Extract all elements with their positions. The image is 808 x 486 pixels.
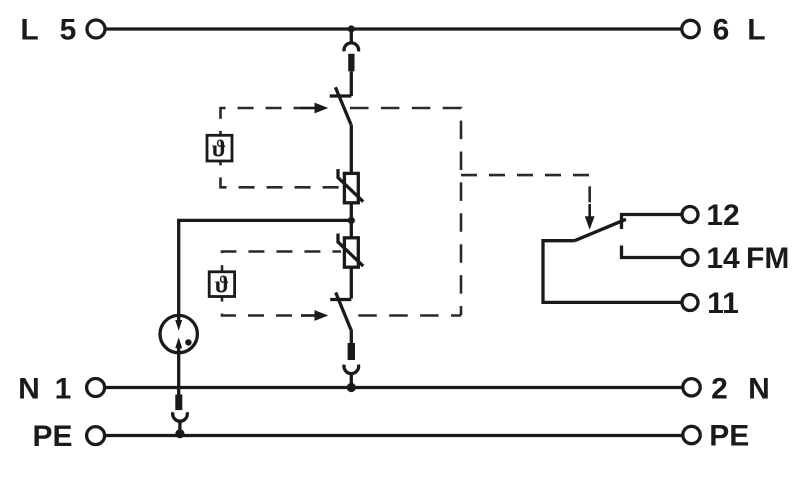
terminal 6 (L right) circle <box>682 20 699 37</box>
terminal 12 circle <box>682 207 698 223</box>
svg-text:ϑ: ϑ <box>215 273 229 299</box>
terminal 11 circle <box>682 295 698 311</box>
thermal sensor T2 dashed link down <box>222 297 302 316</box>
wire L bus <box>106 27 683 30</box>
svg-text:N: N <box>748 372 770 405</box>
node junction on L bus <box>348 25 355 32</box>
thermal disconnect arc (PE branch, opens up) <box>173 412 188 421</box>
node mid junction dot <box>348 217 355 224</box>
wire from L junction down <box>350 29 353 43</box>
varistor RV2 body <box>344 238 358 267</box>
GDT gas dot <box>185 339 191 345</box>
svg-text:PE: PE <box>32 420 72 453</box>
svg-text:1: 1 <box>55 372 72 405</box>
wire RV1 to mid node <box>350 203 353 221</box>
wire PE bus <box>105 434 683 437</box>
wire GDT down across N bus <box>177 348 180 395</box>
arrow actuate S2 <box>301 314 316 317</box>
GDT lower electrode arrow <box>175 337 182 348</box>
node junction on N bus <box>347 383 356 392</box>
svg-text:12: 12 <box>706 199 739 232</box>
svg-text:ϑ: ϑ <box>212 137 226 163</box>
terminal 1 (N left) circle <box>87 379 105 397</box>
switch S1 blade <box>335 87 351 124</box>
fuse element F1 (filled bar) <box>348 54 354 72</box>
relay common wire to terminal 11 <box>543 241 682 303</box>
switch S1 fixed contact bar <box>330 94 352 97</box>
svg-text:2: 2 <box>711 372 728 405</box>
svg-text:PE: PE <box>709 420 749 453</box>
thermal sensor T1 dashed link down to RV1 <box>221 161 342 187</box>
wire S2 to fuse <box>350 329 353 343</box>
svg-text:14: 14 <box>706 242 740 275</box>
dashed link right of S1 to corner and down <box>350 108 461 316</box>
arrow actuate relay <box>588 204 591 217</box>
GDT upper electrode arrow <box>177 315 180 321</box>
wire fuse to switch S1 <box>350 71 353 96</box>
relay contact: line to terminal 12 <box>622 215 683 230</box>
svg-text:11: 11 <box>707 287 739 320</box>
svg-text:5: 5 <box>60 14 77 47</box>
switch S2 fixed contact bar <box>330 298 351 301</box>
node junction on PE bus <box>175 429 184 438</box>
svg-text:FM: FM <box>746 242 789 275</box>
thermal sensor T1 dashed link up <box>221 108 303 135</box>
terminal 14 circle <box>682 250 698 266</box>
gas discharge tube body (circle) <box>160 315 197 352</box>
thermal sensor T2 dashed link up to RV2 <box>222 252 341 272</box>
thermal sensor T2 box <box>209 272 234 297</box>
thermal disconnect arc (top, opens down) <box>344 43 359 52</box>
terminal PE right circle <box>683 426 700 443</box>
wire mid node to varistor RV2 <box>350 220 353 237</box>
wire arc to PE junction <box>178 421 181 434</box>
relay contact: line to terminal 14 <box>622 246 683 258</box>
varistor RV2 diagonal <box>338 234 363 267</box>
dashed link right of S2 to corner <box>350 314 461 317</box>
wire mid node to GDT (horizontal + vertical) <box>179 220 352 315</box>
fuse element (filled bar, PE branch) <box>175 395 182 411</box>
thermal disconnect arc (bottom, opens up) <box>344 365 359 374</box>
terminal PE left circle <box>87 427 105 445</box>
arrow actuate S1 <box>301 107 316 110</box>
terminal 5 (L left) circle <box>87 20 105 38</box>
relay blade <box>575 219 626 240</box>
svg-text:L: L <box>747 14 765 47</box>
thermal sensor T1 box <box>207 135 232 161</box>
wire arc to N junction <box>350 373 353 387</box>
varistor RV1 diagonal <box>338 169 363 202</box>
terminal 2 (N right) circle <box>683 379 700 396</box>
varistor RV1 body <box>344 173 358 202</box>
switch S2 blade <box>336 293 351 330</box>
svg-text:6: 6 <box>713 14 730 47</box>
wire N bus <box>105 386 683 389</box>
svg-text:L: L <box>20 14 38 47</box>
fuse element (filled bar, bottom) <box>348 343 355 360</box>
wire RV2 to switch S2 <box>350 267 353 298</box>
svg-text:N: N <box>18 372 40 405</box>
dashed link to relay <box>461 175 590 206</box>
wire S1 to varistor RV1 <box>350 124 353 173</box>
